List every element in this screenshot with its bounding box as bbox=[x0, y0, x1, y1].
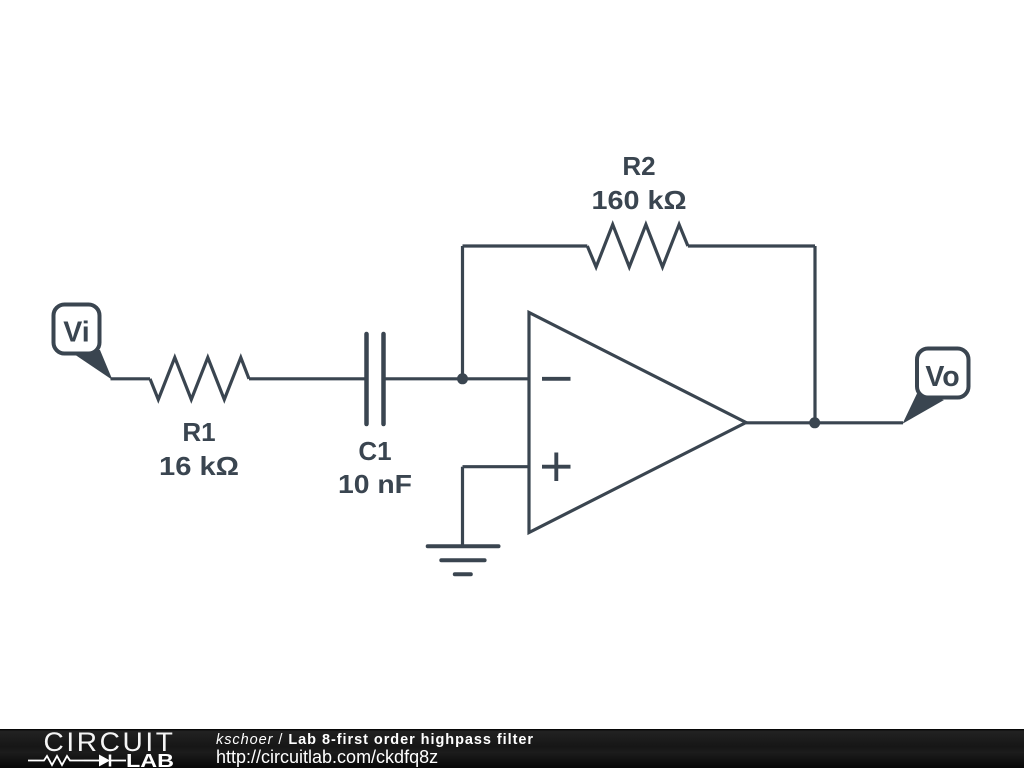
ground bbox=[428, 546, 499, 574]
wire feedback left segment bbox=[463, 244, 588, 247]
wire feedback down to output bbox=[813, 246, 816, 423]
capacitor C1 bbox=[338, 334, 412, 499]
wire Vi to R1 bbox=[111, 377, 151, 380]
resistor R1 bbox=[150, 358, 249, 482]
wire ground drop bbox=[461, 467, 464, 547]
footer url bbox=[216, 747, 438, 768]
svg-text:C1: C1 bbox=[358, 436, 391, 466]
CircuitLab logo bbox=[0, 729, 200, 768]
svg-text:LAB: LAB bbox=[126, 751, 174, 768]
svg-text:R1: R1 bbox=[182, 417, 215, 447]
wire non-inverting input bbox=[463, 465, 530, 468]
wire inverting input bbox=[463, 377, 530, 380]
node flag Vi bbox=[54, 305, 113, 381]
svg-text:R2: R2 bbox=[622, 151, 655, 181]
footer bar bbox=[0, 729, 1024, 768]
svg-text:10 nF: 10 nF bbox=[338, 469, 412, 499]
node A junction dot bbox=[457, 373, 468, 384]
op-amp U1 bbox=[529, 313, 746, 533]
wire R1 to C1 bbox=[249, 377, 367, 380]
svg-text:16 kΩ: 16 kΩ bbox=[159, 451, 239, 481]
svg-text:160 kΩ: 160 kΩ bbox=[592, 185, 687, 215]
wire output bbox=[746, 421, 903, 424]
wire feedback right segment bbox=[688, 244, 815, 247]
footer title bbox=[216, 732, 534, 748]
wire node A up to feedback bbox=[461, 246, 464, 379]
svg-text:Vo: Vo bbox=[925, 361, 959, 393]
svg-text:Vi: Vi bbox=[63, 317, 89, 349]
resistor R2 bbox=[587, 151, 688, 267]
wire C1 to node A bbox=[384, 377, 463, 380]
output node junction dot bbox=[809, 417, 820, 428]
node flag Vo bbox=[903, 349, 969, 424]
